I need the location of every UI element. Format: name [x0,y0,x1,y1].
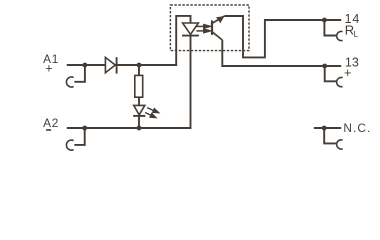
svg-text:N.C.: N.C. [343,121,371,135]
svg-text:+: + [45,61,52,75]
svg-text:L: L [354,30,359,39]
svg-text:+: + [344,66,351,80]
svg-text:A2: A2 [43,116,59,130]
